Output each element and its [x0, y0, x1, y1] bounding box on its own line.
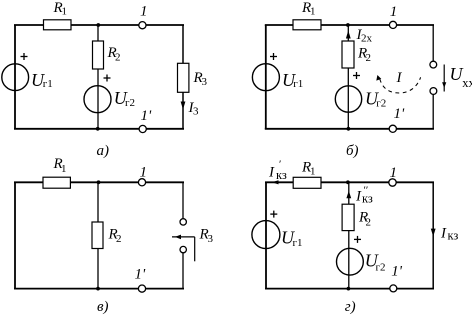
arrowhead of dashed arc (б)	[376, 75, 381, 81]
resistor R2 (г)	[342, 204, 354, 230]
svg-text:г1: г1	[43, 78, 53, 90]
resistor R1 (б)	[293, 20, 321, 30]
resistor R3 (а)	[178, 63, 189, 92]
arrow current I2x (б)	[346, 31, 351, 39]
source Uг1 (а)	[2, 64, 29, 91]
svg-text:3: 3	[193, 106, 199, 118]
svg-text:2: 2	[366, 217, 372, 229]
svg-text:г1: г1	[293, 237, 303, 249]
svg-text:1: 1	[390, 4, 398, 20]
wire: top side of loop (в)	[14, 181, 184, 183]
node terminal 1' (а)	[139, 125, 146, 132]
arrow current I''кз (г)	[346, 191, 351, 198]
wire: top side of loop (б)	[265, 24, 434, 26]
source Uг2 (а)	[84, 86, 111, 113]
arrow current Iкз on right wire (г)	[431, 229, 436, 237]
wire: right side of loop (а)	[182, 25, 184, 129]
svg-text:I: I	[396, 70, 403, 86]
svg-text:1: 1	[390, 165, 398, 181]
resistor R1 (г)	[293, 177, 321, 188]
svg-text:кз: кз	[362, 191, 373, 205]
polarity plus of Uг2 (а)	[104, 75, 111, 82]
svg-text:2: 2	[366, 52, 372, 64]
node terminal 1' (в)	[138, 285, 145, 292]
switch upper contact (в)	[180, 219, 186, 225]
source Uг1 (г)	[252, 221, 280, 249]
wire: middle branch (в)	[97, 182, 99, 289]
node terminal 1 (а)	[139, 22, 146, 29]
wire: left side of loop (г)	[265, 182, 267, 289]
arrow voltage Uxx (б)	[442, 65, 446, 92]
svg-text:1: 1	[310, 166, 316, 178]
wire: left side of loop (б)	[265, 25, 267, 129]
svg-text:кз: кз	[276, 168, 287, 182]
node terminal 1 (г)	[389, 179, 396, 186]
wire: right side upper segment to open terminal (б)	[432, 25, 434, 61]
svg-text:1: 1	[140, 165, 148, 181]
junction: top node of middle branch (в)	[97, 180, 101, 184]
svg-text:г2: г2	[125, 97, 135, 109]
arrow current I3 (а)	[181, 102, 186, 110]
wire: left side of loop (а)	[14, 25, 16, 129]
svg-text:в): в)	[97, 299, 109, 315]
resistor R1 (а)	[44, 20, 72, 30]
wire: bottom side of loop (г)	[265, 288, 434, 290]
svg-text:г1: г1	[293, 78, 303, 90]
wire: middle branch (б)	[347, 25, 349, 129]
resistor R1 (в)	[43, 177, 70, 188]
svg-text:1: 1	[310, 6, 316, 18]
svg-text:кз: кз	[448, 228, 459, 242]
wire: bottom side of loop (в)	[14, 288, 184, 290]
polarity plus of Uг2 (г)	[354, 236, 361, 243]
polarity plus of Uг2 (б)	[353, 72, 360, 79]
node terminal 1' (г)	[390, 285, 397, 292]
svg-text:1': 1'	[135, 267, 147, 283]
wire: right side of loop (г)	[432, 182, 434, 289]
svg-text:1: 1	[140, 4, 148, 20]
svg-text:I: I	[440, 226, 447, 242]
wire: middle branch (а)	[97, 25, 99, 129]
resistor R2 (б)	[342, 41, 354, 68]
svg-text:б): б)	[346, 143, 359, 159]
svg-text:1: 1	[62, 6, 68, 18]
svg-text:3: 3	[202, 76, 208, 88]
wire: middle branch (г)	[348, 182, 350, 289]
svg-text:1': 1'	[394, 106, 406, 122]
source Uг1 (б)	[252, 64, 279, 91]
junction: node between R1,R2 top (а)	[96, 23, 100, 27]
polarity plus of Uг1 (а)	[21, 53, 28, 60]
wire: bottom side of loop (б)	[265, 128, 434, 130]
svg-text:г2: г2	[376, 261, 386, 273]
switch lower contact (в)	[180, 246, 186, 252]
svg-text:1: 1	[61, 163, 67, 175]
svg-text:2: 2	[116, 233, 122, 245]
svg-text:3: 3	[208, 233, 214, 245]
junction: top node of middle branch (г)	[346, 180, 350, 184]
svg-text:а): а)	[97, 143, 110, 159]
switch arm wire with arrow (в)	[172, 235, 195, 262]
wire: right side upper segment (в)	[182, 182, 184, 218]
wire: right side lower segment from open terminal (б)	[432, 94, 434, 129]
svg-text:хх: хх	[462, 76, 472, 90]
node terminal 1 (в)	[138, 179, 145, 186]
wire: right side lower segment (в)	[182, 253, 184, 289]
junction: bottom node of middle branch (б)	[347, 127, 351, 131]
node terminal 1 (б)	[389, 21, 396, 28]
svg-text:1': 1'	[141, 108, 153, 124]
wire: left side of loop (в)	[14, 182, 16, 289]
resistor R2 (в)	[92, 222, 103, 249]
node terminal 1' (б)	[389, 125, 396, 132]
polarity plus of Uг1 (б)	[270, 53, 277, 60]
junction: bottom node of middle branch (а)	[96, 127, 100, 131]
arrow current I'кз on top wire (г)	[272, 180, 279, 184]
open terminal upper contact (б)	[430, 61, 437, 68]
svg-text:г2: г2	[376, 98, 386, 110]
svg-text:I: I	[355, 189, 362, 205]
svg-text:I: I	[268, 165, 275, 181]
junction: bottom node of middle branch (в)	[96, 287, 100, 291]
svg-text:1': 1'	[391, 264, 403, 280]
junction: bottom node of middle branch (г)	[347, 287, 351, 291]
svg-text:2х: 2х	[361, 33, 373, 45]
wire: top side of loop (а)	[14, 24, 184, 26]
wire: top side of loop (г)	[265, 181, 434, 183]
polarity plus of Uг1 (г)	[270, 211, 277, 218]
svg-text:г): г)	[345, 299, 356, 315]
junction: top node of middle branch (б)	[346, 23, 350, 27]
dashed arc current I (б)	[380, 77, 421, 93]
source Uг2 (б)	[335, 86, 361, 112]
source Uг2 (г)	[337, 248, 364, 275]
open terminal lower contact (б)	[430, 88, 437, 95]
wire: bottom side of loop (а)	[14, 128, 184, 130]
resistor R2 (а)	[93, 41, 104, 69]
svg-text:2: 2	[115, 52, 121, 64]
